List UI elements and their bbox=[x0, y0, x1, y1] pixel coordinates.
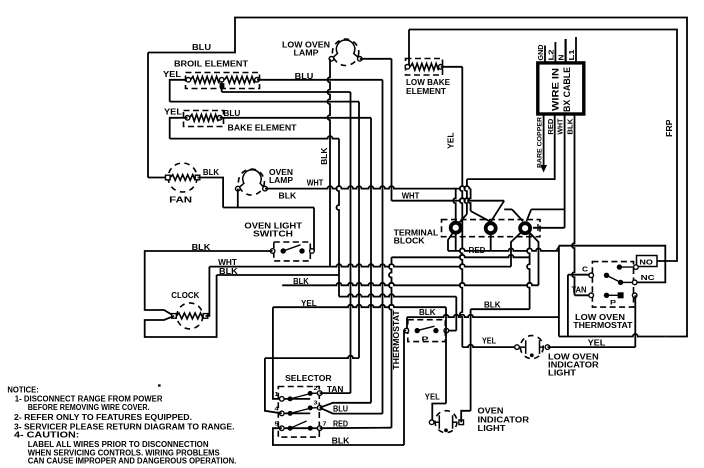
terminal selector 1 bbox=[280, 397, 285, 402]
wire WHT y200.7 to T2 bbox=[392, 198, 505, 201]
svg-text:BLK: BLK bbox=[332, 437, 350, 446]
wire broil mid drop bbox=[221, 82, 223, 92]
wire BLK y285.3 bbox=[282, 283, 538, 286]
svg-text:7: 7 bbox=[323, 422, 327, 428]
svg-text:ELEMENT: ELEMENT bbox=[406, 87, 446, 96]
svg-text:THERMOSTAT: THERMOSTAT bbox=[391, 309, 401, 369]
contact dot thermostat right bbox=[433, 328, 438, 333]
wire bus v1 BLK from low oven lamp left bbox=[328, 59, 331, 267]
terminal bake left bbox=[185, 116, 190, 121]
svg-text:2- REFER ONLY TO FEATURES EQUI: 2- REFER ONLY TO FEATURES EQUIPPED. bbox=[14, 412, 192, 422]
resistor fan motor bbox=[170, 175, 195, 181]
terminal low oven ind left bbox=[515, 345, 520, 350]
switch blade selector row2 bbox=[290, 408, 310, 413]
terminal low bake left bbox=[405, 65, 410, 70]
wire oven light switch left BLK to rail bbox=[145, 251, 273, 316]
wire selector BLU a bbox=[320, 403, 371, 408]
junction bump RED to box bbox=[556, 247, 559, 251]
low oven indicator dashed circle bbox=[520, 336, 543, 359]
wire BLK y207.5 under oven lamp bbox=[223, 207, 314, 209]
svg-text:YEL: YEL bbox=[164, 108, 182, 117]
terminal NC bbox=[632, 280, 637, 285]
wire diag T2 right bbox=[491, 201, 505, 222]
pin N line bbox=[564, 39, 566, 63]
wire TAN row bbox=[575, 294, 592, 296]
svg-text:L2: L2 bbox=[548, 49, 555, 60]
wire YEL drop to oven indicator bbox=[445, 307, 447, 403]
pin GND line bbox=[544, 46, 546, 63]
low oven thermostat dashed box bbox=[592, 262, 633, 308]
wire selector T5 loop bbox=[273, 428, 404, 445]
contact dot C blade bbox=[604, 273, 609, 278]
wire C stub bbox=[568, 274, 591, 276]
svg-text:BLK: BLK bbox=[419, 308, 436, 317]
svg-text:BROIL ELEMENT: BROIL ELEMENT bbox=[174, 60, 248, 69]
oven lamp filament arc bbox=[238, 170, 265, 189]
wire WHT corner drop to terminal block T2 bbox=[468, 189, 471, 211]
terminal low oven ind right bbox=[545, 345, 550, 350]
svg-text:5: 5 bbox=[275, 422, 279, 428]
terminal selector 3 BLU bbox=[317, 405, 322, 410]
wire low oven thermostat left edge bbox=[558, 246, 560, 337]
wire BLK from bx to TAN bbox=[572, 114, 575, 296]
wire clock right stub to WHT riser bbox=[206, 267, 210, 316]
wire left rail bbox=[147, 53, 149, 178]
svg-text:WHT: WHT bbox=[307, 178, 324, 187]
wire T2 leg bbox=[490, 234, 492, 251]
terminal broil mid bbox=[219, 78, 224, 83]
wire sel row3 bbox=[282, 427, 320, 429]
svg-text:L1: L1 bbox=[569, 49, 576, 60]
terminal low bake right bbox=[439, 65, 444, 70]
contact dot oven light sw left bbox=[281, 248, 286, 253]
wire thermostat left drop to BLK bottom bbox=[404, 331, 406, 445]
svg-text:GND: GND bbox=[538, 45, 545, 61]
svg-text:CAN CAUSE IMPROPER AND DANGERO: CAN CAUSE IMPROPER AND DANGEROUS OPERATI… bbox=[28, 456, 237, 466]
wire RED from bx bbox=[467, 114, 555, 180]
svg-text:BLU: BLU bbox=[223, 109, 240, 118]
svg-text:BLU: BLU bbox=[192, 43, 211, 52]
wire sel dot to T2 bbox=[310, 392, 320, 394]
terminal oven light sw right bbox=[310, 249, 315, 254]
wire bake-left feeder y138.6 bbox=[170, 136, 339, 139]
terminal oven indicator right (square) bbox=[459, 420, 464, 425]
wire BLK drop to oven light switch bbox=[313, 208, 315, 252]
wire T3 leg A bbox=[511, 233, 521, 267]
terminal C bbox=[589, 273, 594, 278]
contact dot NC bbox=[618, 280, 623, 285]
wire low oven lamp right to v6 bbox=[360, 58, 392, 60]
wire RED drop to T1 bbox=[464, 179, 467, 214]
broil element dashed box bbox=[186, 73, 260, 89]
wire diag feed T2 left bbox=[471, 211, 491, 222]
wire selector BLU b bbox=[320, 408, 383, 414]
wire fan feed bbox=[148, 177, 168, 179]
terminal low oven lamp right bbox=[358, 57, 363, 62]
svg-text:C: C bbox=[582, 265, 589, 274]
selector dashed box bbox=[278, 387, 319, 438]
resistor low bake element bbox=[410, 63, 439, 70]
pin L1 line bbox=[575, 37, 577, 63]
contact dot sel r3 top bbox=[308, 405, 313, 410]
wire fan out BLK bbox=[198, 178, 224, 208]
svg-text:WIRE IN: WIRE IN bbox=[551, 68, 561, 111]
contact dot thermostat left bbox=[415, 328, 420, 333]
terminal thermostat right bbox=[444, 328, 449, 333]
wire bus v3 from broil-left (to selector loop) bbox=[358, 102, 360, 359]
svg-text:OVEN: OVEN bbox=[478, 407, 504, 416]
wire T1 feed vertical bbox=[453, 188, 455, 222]
svg-text:NO: NO bbox=[639, 257, 653, 266]
wire T1 leg straight bbox=[455, 234, 457, 251]
wire sel dot to T3 bbox=[310, 407, 320, 409]
contact dot sel r2 left bbox=[288, 411, 293, 416]
switch blade thermostat bbox=[417, 326, 434, 330]
svg-text:LOW BAKE: LOW BAKE bbox=[406, 78, 451, 87]
wire in bx cable box bbox=[538, 63, 584, 114]
svg-text:BLOCK: BLOCK bbox=[394, 236, 425, 245]
wire diag RED to T1 bbox=[458, 214, 467, 224]
svg-text:YEL: YEL bbox=[482, 336, 496, 345]
terminal broil right bbox=[255, 78, 260, 83]
svg-text:P: P bbox=[610, 301, 616, 307]
wire oven lamp left drop bbox=[237, 189, 239, 208]
wire broil left YEL drop bbox=[170, 80, 189, 102]
terminal low oven lamp left bbox=[329, 57, 334, 62]
contact dot TAN left bbox=[604, 293, 609, 298]
resistor bake element bbox=[190, 114, 219, 121]
clock dashed circle bbox=[177, 303, 203, 329]
wire BLK y309.2 to T3 riser bbox=[471, 308, 530, 310]
wire YEL y307.2 bbox=[273, 305, 446, 308]
wire TAN right vertical to YEL bbox=[634, 295, 636, 347]
wire T1 leg diag bbox=[448, 233, 453, 251]
wire broil-left feeder y101.6 bbox=[170, 101, 359, 103]
svg-text:INDICATOR: INDICATOR bbox=[478, 415, 530, 424]
wire bare copper lead bbox=[543, 114, 545, 165]
resistor broil element section 2 bbox=[224, 76, 254, 83]
wire bus riser to selector RED bbox=[389, 257, 392, 427]
svg-text:LIGHT: LIGHT bbox=[478, 424, 506, 433]
wire WHT y266.6 bbox=[209, 264, 511, 267]
svg-text:FRP: FRP bbox=[665, 119, 674, 137]
svg-text:BLK: BLK bbox=[484, 300, 501, 309]
terminal fan right (square) bbox=[195, 175, 200, 180]
pin L2 line bbox=[554, 42, 556, 63]
terminal block cross mark bbox=[535, 224, 542, 231]
wire WHT from bx bbox=[531, 114, 564, 210]
wire diag WHT to T3 bbox=[527, 209, 532, 221]
terminal selector 2 TAN bbox=[317, 391, 322, 396]
contact dot sel r1 left bbox=[288, 396, 293, 401]
switch blade low oven thermostat C bbox=[607, 275, 621, 282]
svg-text:BEFORE REMOVING WIRE COVER.: BEFORE REMOVING WIRE COVER. bbox=[28, 402, 150, 412]
svg-text:YEL: YEL bbox=[447, 132, 456, 149]
terminal TAN right bbox=[632, 293, 637, 298]
low oven lamp dashed circle bbox=[332, 39, 358, 65]
terminal bake right bbox=[217, 116, 222, 121]
svg-text:N: N bbox=[559, 55, 566, 61]
svg-text:LAMP: LAMP bbox=[294, 49, 320, 58]
wire T3 leg B BLK riser bbox=[527, 234, 530, 309]
svg-text:BLK: BLK bbox=[203, 168, 219, 177]
broil mid sensor mark bbox=[220, 83, 225, 88]
wire selector left loop 358 wire bbox=[265, 356, 359, 359]
resistor broil element section 1 bbox=[191, 76, 220, 83]
wire YEL left drop to selector T1 bbox=[273, 307, 282, 399]
wire selector RED out bbox=[320, 427, 392, 430]
resistor clock motor bbox=[176, 313, 203, 319]
svg-text:BAKE ELEMENT: BAKE ELEMENT bbox=[228, 123, 297, 132]
wire bus v2 from broil-mid (to selector TAN) bbox=[350, 92, 352, 393]
thermostat dashed box bbox=[408, 320, 446, 342]
contact square TAN right bbox=[618, 292, 624, 298]
svg-text:YEL: YEL bbox=[163, 70, 181, 79]
wire selector row1 bbox=[282, 398, 310, 400]
wire low bake left riser bbox=[408, 30, 410, 67]
wire bus v6 from low oven lamp right bbox=[391, 59, 393, 201]
wire bus v1b from bake-left feeder bbox=[337, 139, 340, 297]
svg-text:2: 2 bbox=[314, 386, 318, 392]
contact dot oven light sw right bbox=[299, 248, 304, 253]
wire T3 right tap bbox=[533, 227, 565, 229]
wire T3 leg C bbox=[530, 233, 539, 286]
wire diag T3 left bbox=[512, 209, 523, 221]
low oven lamp filament arc bbox=[331, 40, 359, 59]
low bake dashed box bbox=[406, 59, 443, 76]
svg-text:RED: RED bbox=[548, 119, 555, 135]
svg-text:FAN: FAN bbox=[169, 196, 192, 205]
fan dashed circle bbox=[168, 163, 197, 192]
NO label box bbox=[637, 256, 658, 267]
wire bake left YEL drop bbox=[170, 118, 188, 139]
svg-text:WHT: WHT bbox=[218, 258, 237, 267]
terminal block T3 bbox=[520, 223, 530, 233]
svg-text:BLK: BLK bbox=[320, 147, 329, 165]
svg-text:YEL: YEL bbox=[425, 393, 440, 402]
contact dot sel r3 right bbox=[308, 426, 313, 431]
wire NC dot to terminal bbox=[621, 281, 635, 283]
bake element dashed box bbox=[184, 111, 224, 127]
svg-text:BX CABLE: BX CABLE bbox=[562, 67, 572, 112]
terminal broil left bbox=[186, 78, 191, 83]
svg-text:TAN: TAN bbox=[571, 286, 586, 295]
terminal selector 4 bbox=[280, 411, 285, 416]
low oven indicator plates bbox=[520, 340, 544, 354]
wire low oven ind right out bbox=[548, 346, 636, 348]
contact dot sel r2 top bbox=[308, 391, 313, 396]
terminal oven lamp right bbox=[263, 186, 268, 191]
terminal oven indicator left bbox=[429, 420, 434, 425]
terminal block T2 bbox=[486, 223, 496, 233]
svg-text:P: P bbox=[422, 337, 429, 343]
svg-text:3: 3 bbox=[314, 401, 318, 407]
wire clock left lower loop bbox=[145, 275, 217, 337]
oven indicator dashed circle bbox=[435, 411, 457, 433]
terminal TAN left bbox=[589, 293, 594, 298]
wire RED y250.9 bbox=[448, 248, 559, 251]
terminal selector 5 bbox=[280, 426, 285, 431]
wire sel row2 bbox=[282, 412, 310, 414]
oven indicator plates bbox=[434, 415, 457, 429]
svg-text:BLU: BLU bbox=[333, 404, 348, 413]
wire y296.6 to thermostat right bbox=[339, 294, 456, 297]
wire YEL y347.1 bbox=[462, 345, 517, 347]
svg-text:WHT: WHT bbox=[558, 118, 565, 135]
svg-text:LAMP: LAMP bbox=[269, 176, 294, 185]
low oven indicator dot bbox=[530, 353, 534, 357]
terminal fan left (square) bbox=[166, 175, 171, 180]
wire C vertical bbox=[567, 275, 569, 337]
oven indicator dot bbox=[444, 428, 448, 432]
wire low oven thermostat bottom edge bbox=[559, 334, 665, 337]
wire BLK y275 bbox=[217, 274, 339, 276]
wire bus v5 from broil BLU (to selector BLU b) bbox=[382, 80, 384, 414]
wire bus v4 from bake BLU (to selector BLU a) bbox=[370, 118, 372, 403]
svg-text:LIGHT: LIGHT bbox=[548, 369, 576, 378]
terminal clock left (square) bbox=[172, 314, 177, 319]
wire w257 from bus riser bbox=[392, 255, 530, 258]
svg-text:RED: RED bbox=[333, 419, 348, 428]
svg-text:SELECTOR: SELECTOR bbox=[285, 374, 332, 383]
terminal oven lamp left bbox=[236, 186, 241, 191]
wire inner loop to NO contact bbox=[409, 30, 677, 262]
wire BLU top feed from left rail to top rail bbox=[148, 18, 687, 337]
contact dot sel r3 left bbox=[288, 426, 293, 431]
wire broil-mid feeder y92 bbox=[222, 91, 351, 93]
wire broil BLU y79.8 bbox=[257, 79, 383, 81]
switch blade selector row1 bbox=[290, 394, 310, 399]
svg-text:THERMOSTAT: THERMOSTAT bbox=[573, 321, 632, 330]
terminal selector 7 bbox=[317, 426, 322, 431]
bare copper arrow bbox=[540, 165, 547, 173]
oven lamp dashed circle bbox=[238, 169, 264, 195]
svg-text:BARE COPPER: BARE COPPER bbox=[537, 117, 544, 168]
wire selector TAN out bbox=[320, 392, 351, 394]
terminal block T1 bbox=[451, 223, 461, 233]
terminal NO bbox=[634, 265, 639, 270]
wire oven indicator right feed bbox=[470, 309, 472, 411]
contact dot NO bbox=[617, 264, 622, 269]
terminal oven light sw left bbox=[270, 249, 275, 254]
switch TAN row contacts bbox=[607, 294, 621, 296]
wire selector left drop to T4 bbox=[265, 358, 282, 413]
svg-text:BLK: BLK bbox=[567, 119, 574, 135]
terminal block dashed box bbox=[442, 220, 541, 237]
stray print mark bbox=[158, 384, 161, 386]
switch blade oven light bbox=[283, 245, 300, 251]
contact NO line bbox=[619, 266, 636, 268]
svg-text:CLOCK: CLOCK bbox=[171, 291, 199, 300]
svg-text:SWITCH: SWITCH bbox=[253, 230, 293, 239]
wire low bake right YEL riser bbox=[441, 66, 463, 68]
wire y317 thermostat left to low oven thermostat bbox=[406, 317, 408, 331]
wire low oven thermostat top edge (RED) bbox=[559, 246, 665, 283]
wire WHT oven lamp y188.6 bbox=[265, 186, 471, 189]
wire bake BLU y117.8 bbox=[220, 117, 371, 119]
svg-text:NC: NC bbox=[641, 273, 656, 282]
switch blade selector row3 bbox=[290, 421, 307, 428]
svg-text:BLK: BLK bbox=[279, 192, 297, 201]
svg-text:1: 1 bbox=[275, 392, 279, 398]
oven light switch dashed box bbox=[274, 242, 311, 261]
terminal thermostat left bbox=[404, 328, 409, 333]
svg-text:WHT: WHT bbox=[402, 191, 420, 200]
terminal clock right (square) bbox=[203, 314, 208, 319]
